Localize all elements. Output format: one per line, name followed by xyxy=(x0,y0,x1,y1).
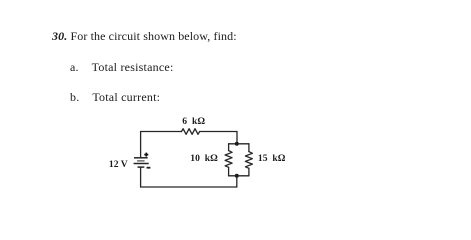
node junction dot top xyxy=(235,142,239,146)
wire bottom drop from parallel node xyxy=(236,176,238,187)
wire right branch upper xyxy=(248,144,250,152)
wire top-left segment xyxy=(141,131,182,133)
battery minus sign xyxy=(147,167,151,169)
wire parallel top rail xyxy=(229,143,249,145)
resistor R3 15 kOhm (vertical zigzag) xyxy=(245,152,252,169)
label 15 kOhm xyxy=(258,154,286,164)
label 12 V xyxy=(109,160,128,170)
wire left branch upper xyxy=(228,144,230,151)
wire parallel bottom rail xyxy=(229,175,249,177)
wire bottom rail xyxy=(141,186,237,188)
wire left side lower (from battery) xyxy=(140,167,142,187)
wire right branch lower xyxy=(248,168,250,176)
battery V1 12 V plates xyxy=(134,158,149,167)
battery plus sign xyxy=(144,153,148,157)
node junction dot bottom xyxy=(235,174,239,178)
wire left side upper (to battery) xyxy=(140,132,142,157)
wire left branch lower xyxy=(228,167,230,176)
label 6 kOhm xyxy=(182,117,205,127)
wire right drop to parallel node xyxy=(236,132,238,144)
item b: Total current xyxy=(70,91,160,103)
resistor R2 10 kOhm (vertical zigzag) xyxy=(225,151,232,168)
resistor R1 6 kOhm (horizontal zigzag) xyxy=(182,129,200,135)
problem number 30 and prompt text xyxy=(52,30,237,42)
item a: Total resistance xyxy=(70,61,174,73)
label 10 kOhm xyxy=(190,154,218,164)
wire top-right segment xyxy=(200,131,237,133)
